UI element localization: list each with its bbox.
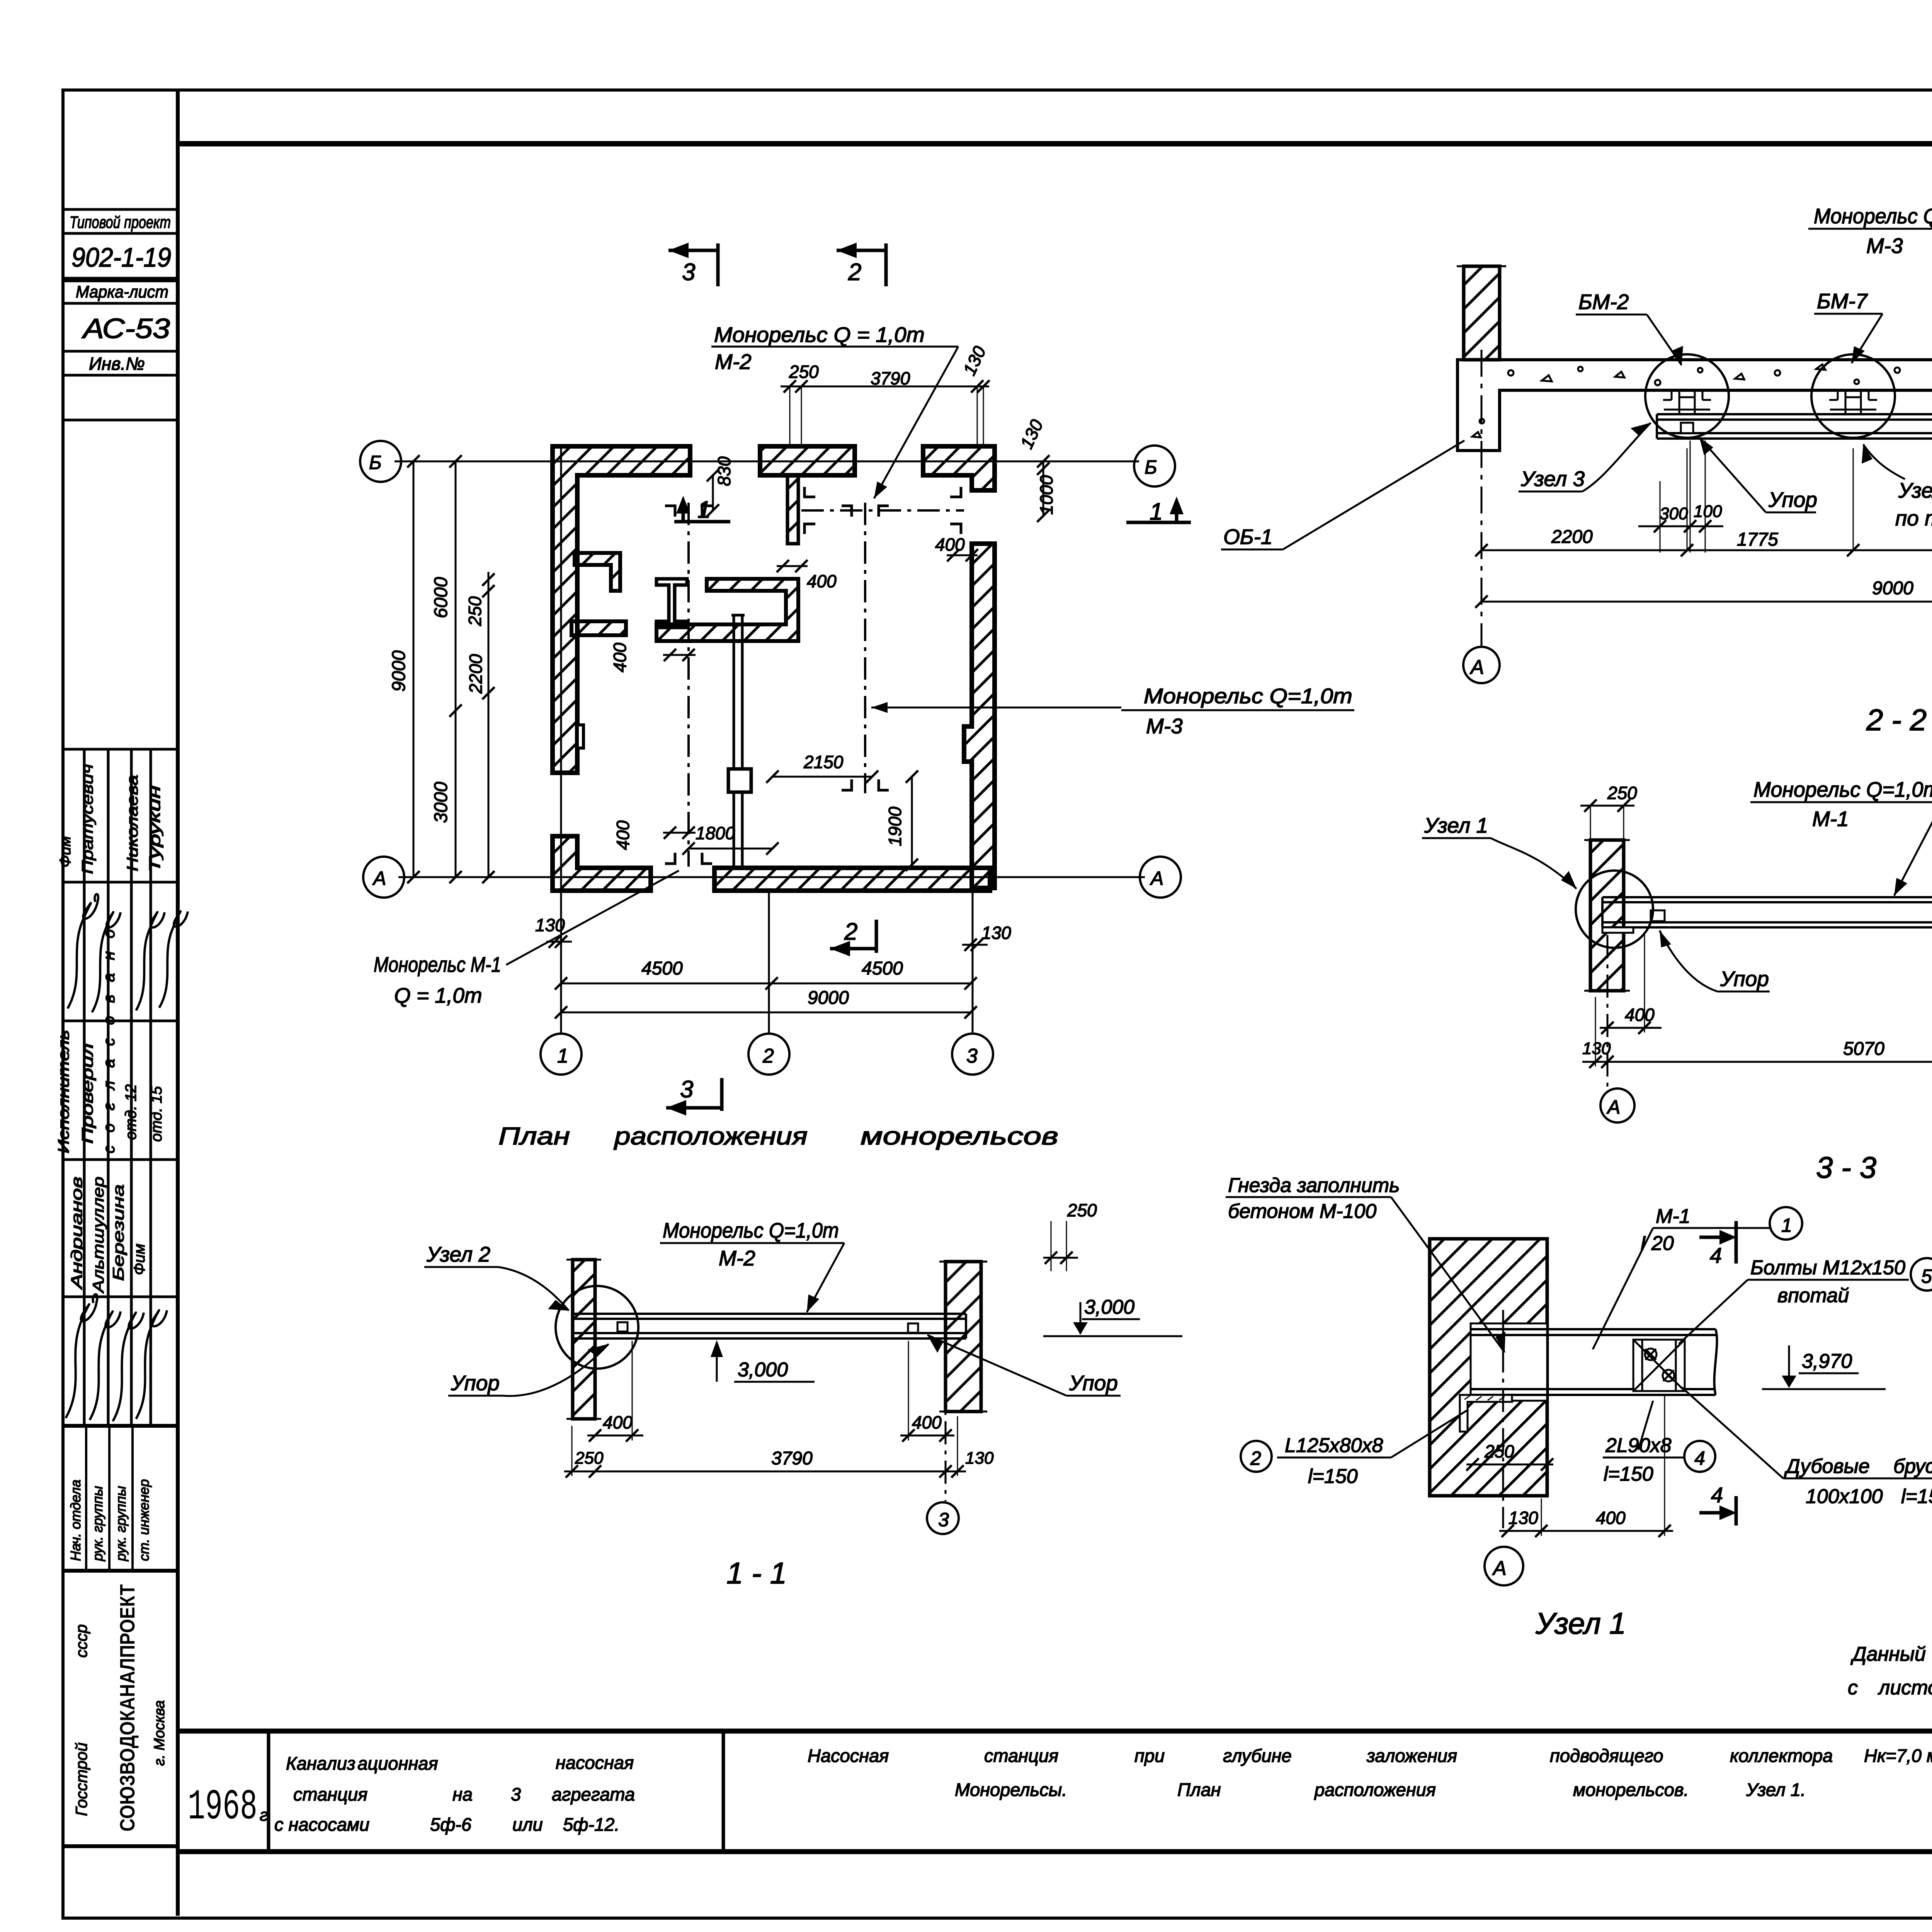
svg-text:5ф-12.: 5ф-12. <box>563 1814 619 1835</box>
section mark 1 right <box>1126 501 1191 522</box>
svg-text:1968: 1968 <box>188 1783 257 1832</box>
svg-text:l=150: l=150 <box>1308 1465 1358 1488</box>
svg-text:Монорельс Q=1,0т: Монорельс Q=1,0т <box>1814 204 1932 228</box>
svg-text:2150: 2150 <box>803 752 844 772</box>
svg-text:100: 100 <box>1694 502 1722 521</box>
wall: right <box>964 544 995 888</box>
left strip right edge <box>176 92 180 1916</box>
svg-text:130: 130 <box>1509 1508 1538 1528</box>
svg-text:Узел 3: Узел 3 <box>1520 467 1585 491</box>
svg-text:3000: 3000 <box>431 782 451 823</box>
bottom dims 250 3790 130 <box>564 1471 966 1473</box>
svg-text:1 - 1: 1 - 1 <box>726 1556 787 1590</box>
svg-text:с насосами: с насосами <box>274 1814 369 1835</box>
M-3 label leader <box>871 707 1121 709</box>
svg-text:l=150: l=150 <box>1901 1485 1932 1508</box>
svg-text:отд. 15: отд. 15 <box>148 1086 165 1142</box>
svg-text:250: 250 <box>465 596 485 626</box>
axis to circle А <box>1607 935 1609 1088</box>
svg-text:г: г <box>260 1806 268 1825</box>
signatures row2 (squiggles) <box>68 894 188 1012</box>
svg-text:А: А <box>1606 1096 1620 1118</box>
grid circle А left <box>363 857 404 898</box>
svg-text:1: 1 <box>1150 498 1163 525</box>
svg-text:1900: 1900 <box>885 806 905 846</box>
svg-text:4500: 4500 <box>862 958 903 979</box>
svg-text:830: 830 <box>714 456 734 486</box>
grid circle 3 <box>952 1034 993 1075</box>
svg-text:400: 400 <box>613 820 633 850</box>
detail circle БМ-7 <box>1811 354 1895 438</box>
left strip top boxes <box>63 209 178 420</box>
svg-text:рук. группы: рук. группы <box>113 1486 129 1561</box>
svg-text:расположения: расположения <box>614 1122 808 1150</box>
dim 130/1000 top right <box>1043 461 1044 516</box>
dim 400 left 1-1 <box>587 1435 643 1437</box>
svg-text:2L90х8: 2L90х8 <box>1605 1434 1672 1457</box>
dim 250 top 3-3 <box>1580 805 1634 807</box>
svg-text:станция: станция <box>984 1745 1058 1766</box>
svg-text:БМ-2: БМ-2 <box>1578 290 1629 314</box>
svg-text:9000: 9000 <box>808 988 849 1008</box>
svg-text:бетоном М-100: бетоном М-100 <box>1228 1200 1376 1223</box>
dim 830 <box>712 475 714 510</box>
svg-text:400: 400 <box>1625 1005 1655 1025</box>
svg-text:3: 3 <box>682 259 695 286</box>
svg-text:400: 400 <box>610 643 630 672</box>
wall: bottom <box>714 868 990 891</box>
M-1 leader <box>506 871 679 965</box>
svg-text:Дубовые: Дубовые <box>1784 1455 1870 1478</box>
svg-text:3: 3 <box>680 1076 693 1103</box>
svg-text:коллектора: коллектора <box>1730 1745 1833 1766</box>
svg-text:2200: 2200 <box>466 654 486 694</box>
svg-text:листом: листом <box>1878 1677 1932 1699</box>
svg-text:План: План <box>1177 1779 1221 1800</box>
wall: top-left band + left wall <box>553 446 690 773</box>
closet wall bottom <box>571 621 626 635</box>
Госстрой box <box>63 1844 178 1848</box>
svg-text:Данный: Данный <box>1850 1643 1926 1665</box>
svg-text:1: 1 <box>1781 1214 1792 1236</box>
dim 6000/3000 left <box>455 461 457 877</box>
svg-text:3790: 3790 <box>771 1448 813 1469</box>
grid circle А right <box>1140 857 1181 898</box>
section mark 1 in plan <box>674 500 730 522</box>
svg-text:Упор: Упор <box>1069 1371 1118 1395</box>
signature table grid <box>63 749 178 1426</box>
svg-text:902-1-19: 902-1-19 <box>71 242 171 272</box>
svg-text:станция: станция <box>293 1784 367 1804</box>
svg-text:Монорельс Q = 1,0т: Монорельс Q = 1,0т <box>714 323 925 347</box>
section mark 4 top <box>1699 1221 1736 1264</box>
svg-text:3,000: 3,000 <box>738 1359 788 1381</box>
svg-text:l=150: l=150 <box>1604 1463 1653 1485</box>
svg-text:250: 250 <box>1067 1200 1097 1220</box>
detail circle 1-1 <box>556 1286 638 1369</box>
closet wall top <box>575 553 620 591</box>
svg-text:Монорельс М-1: Монорельс М-1 <box>374 952 501 976</box>
svg-text:М-1: М-1 <box>1812 807 1849 831</box>
dim 400 right wall <box>947 554 978 556</box>
svg-text:3: 3 <box>511 1784 521 1804</box>
svg-text:А: А <box>1492 1557 1507 1580</box>
svg-text:Турукин: Турукин <box>146 786 163 872</box>
svg-text:4500: 4500 <box>641 958 683 979</box>
svg-text:Упор: Упор <box>1768 488 1817 512</box>
section mark 3 top <box>668 243 718 286</box>
monorail beam 2-2 <box>1657 414 1932 439</box>
dim 9000 <box>1481 601 1932 603</box>
monorail M-3 axis <box>864 503 866 793</box>
stopper left 1-1 <box>617 1322 628 1332</box>
dim 400 left bottom <box>663 832 696 834</box>
svg-text:при: при <box>1134 1745 1165 1766</box>
wall: top right <box>923 446 995 490</box>
svg-text:г. Москва: г. Москва <box>151 1700 168 1766</box>
svg-text:впотай: впотай <box>1777 1284 1849 1307</box>
svg-text:Упор: Упор <box>451 1371 500 1395</box>
svg-text:Монорельс Q=1,0т: Монорельс Q=1,0т <box>663 1218 839 1242</box>
svg-text:План: План <box>498 1122 570 1150</box>
svg-text:Насосная: Насосная <box>808 1745 889 1766</box>
grid line 1 <box>560 448 562 1032</box>
svg-text:2 - 2: 2 - 2 <box>1866 703 1927 737</box>
svg-text:Березина: Березина <box>110 1184 127 1281</box>
svg-text:подводящего: подводящего <box>1550 1745 1663 1766</box>
svg-text:3: 3 <box>966 1045 978 1067</box>
svg-text:400: 400 <box>935 534 965 554</box>
svg-text:М-2: М-2 <box>719 1246 755 1270</box>
angle L125x80x8 <box>1460 1395 1512 1432</box>
svg-text:Нк=7,0 м: Нк=7,0 м <box>1864 1745 1932 1766</box>
grid line А <box>398 876 1145 878</box>
small dims 300 100 <box>1638 526 1723 527</box>
svg-text:М-2: М-2 <box>715 350 752 374</box>
svg-text:монорельсов: монорельсов <box>861 1122 1058 1150</box>
thin partition <box>731 615 745 868</box>
slab with piers <box>1458 360 1932 451</box>
svg-text:Q = 1,0т: Q = 1,0т <box>394 983 482 1007</box>
wall left 3-3 <box>1590 840 1624 991</box>
svg-text:монорельсов.: монорельсов. <box>1573 1779 1689 1800</box>
grid circle 2 <box>748 1034 789 1075</box>
dim 400 mid top <box>777 565 808 567</box>
svg-text:3,970: 3,970 <box>1802 1350 1852 1372</box>
svg-text:2: 2 <box>848 259 861 286</box>
dim 400 left 3-3 <box>1600 1027 1662 1029</box>
svg-text:агрегата: агрегата <box>552 1784 635 1804</box>
grid line 3 <box>972 891 974 1032</box>
bracket БМ-2 <box>1663 391 1711 414</box>
grid line 2 <box>768 891 770 1032</box>
section mark 3 bottom <box>666 1078 722 1111</box>
beam stopper left <box>1681 423 1693 433</box>
dim 400 right 1-1 <box>900 1435 954 1437</box>
svg-text:Болты М12х150: Болты М12х150 <box>1750 1257 1905 1279</box>
svg-text:3 - 3: 3 - 3 <box>1816 1150 1876 1184</box>
label L125x80x8 <box>1241 1441 1272 1472</box>
circle А <box>1463 647 1500 683</box>
svg-text:130: 130 <box>535 915 565 935</box>
inner thick border top <box>178 141 1932 146</box>
svg-text:Узел 1: Узел 1 <box>1424 813 1488 837</box>
svg-text:АС-53: АС-53 <box>82 313 170 344</box>
svg-text:Исполнитель: Исполнитель <box>55 1030 72 1153</box>
svg-text:Инв.№: Инв.№ <box>89 354 145 374</box>
svg-text:Узел 1.: Узел 1. <box>1746 1779 1806 1800</box>
svg-text:ст. инженер: ст. инженер <box>136 1479 152 1561</box>
dim 130 400 узел1 <box>1499 1530 1673 1532</box>
wall right 1-1 <box>946 1262 981 1412</box>
svg-text:1775: 1775 <box>1737 529 1778 550</box>
svg-text:250: 250 <box>1484 1441 1514 1461</box>
svg-text:А: А <box>1469 656 1484 679</box>
bolt assembly with oak blocks <box>1633 1340 1685 1391</box>
dim 9000 left <box>413 461 415 877</box>
svg-text:300: 300 <box>1660 504 1688 523</box>
svg-text:Фим: Фим <box>57 836 74 867</box>
wall: bottom-left corner <box>553 836 651 891</box>
svg-text:Пратусевич: Пратусевич <box>79 764 96 874</box>
NOTES <box>1848 1600 1932 1699</box>
svg-text:4: 4 <box>1694 1447 1705 1469</box>
svg-text:Б: Б <box>369 452 382 473</box>
beam 1-1 <box>573 1314 966 1338</box>
svg-text:250: 250 <box>1607 783 1637 803</box>
svg-text:отд. 12: отд. 12 <box>122 1084 139 1140</box>
roles row <box>55 1030 165 1153</box>
bottom signatures (squiggles) <box>66 1294 167 1421</box>
wall: top middle <box>760 446 855 475</box>
svg-text:6000: 6000 <box>431 577 451 618</box>
dim 250/2200 left <box>488 572 490 877</box>
svg-text:Фим: Фим <box>131 1244 148 1275</box>
svg-text:3,000: 3,000 <box>1084 1296 1134 1318</box>
svg-text:400: 400 <box>807 571 837 591</box>
svg-text:Монорельс Q=1,0т: Монорельс Q=1,0т <box>1753 777 1932 801</box>
monorail M-1 axis <box>687 503 690 867</box>
sheet name cell <box>808 1745 1932 1800</box>
svg-text:БМ-7: БМ-7 <box>1817 289 1868 313</box>
svg-text:130: 130 <box>981 923 1011 943</box>
stopper right 1-1 <box>908 1323 918 1333</box>
svg-text:2: 2 <box>844 918 857 945</box>
PLAN <box>360 243 1354 1150</box>
svg-text:250: 250 <box>575 1449 604 1468</box>
svg-text:400: 400 <box>912 1412 942 1432</box>
SEC22 <box>1221 204 1932 737</box>
svg-text:3: 3 <box>938 1509 949 1531</box>
axis grid 3 <box>945 1264 947 1501</box>
dim 2150 <box>772 776 872 778</box>
svg-text:Андрианов: Андрианов <box>68 1177 85 1290</box>
svg-text:Узел 1: Узел 1 <box>1535 1606 1626 1640</box>
svg-text:рук. группы: рук. группы <box>90 1486 105 1561</box>
svg-text:2: 2 <box>1250 1447 1261 1469</box>
names row <box>68 1177 148 1293</box>
svg-text:4: 4 <box>1710 1243 1722 1267</box>
svg-text:2200: 2200 <box>1551 527 1593 547</box>
dim 4500+4500 <box>561 983 971 985</box>
dim 9000 bottom <box>561 1012 971 1014</box>
svg-text:5070: 5070 <box>1843 1039 1884 1059</box>
circle А узел1 <box>1485 1547 1523 1585</box>
svg-text:Гнезда заполнить: Гнезда заполнить <box>1228 1174 1400 1197</box>
svg-text:СОЮЗВОДОКАНАЛПРОЕКТ: СОЮЗВОДОКАНАЛПРОЕКТ <box>116 1584 139 1832</box>
svg-text:расположения: расположения <box>1314 1779 1436 1800</box>
support angle left <box>1602 927 1633 933</box>
svg-text:с: с <box>1848 1677 1858 1699</box>
bracket БМ-7 <box>1829 391 1877 414</box>
svg-text:Нач. отдела: Нач. отдела <box>68 1480 83 1561</box>
SEC11 <box>424 1200 1182 1590</box>
svg-text:Николаева: Николаева <box>124 775 141 871</box>
svg-text:9000: 9000 <box>1872 578 1913 599</box>
dim 1900 <box>911 777 913 865</box>
wall above slab left <box>1464 266 1500 360</box>
svg-text:М-3: М-3 <box>1866 234 1903 258</box>
middle U walls <box>656 579 798 641</box>
dim 1800 <box>689 848 772 850</box>
svg-text:глубине: глубине <box>1223 1745 1292 1766</box>
wall pilaster left <box>577 725 583 748</box>
svg-text:5: 5 <box>1921 1265 1932 1287</box>
partition pilaster <box>728 769 751 792</box>
rotated names row1 <box>57 764 163 874</box>
monorail M-2 axis <box>801 509 964 512</box>
axis А dashline <box>1481 350 1483 646</box>
dim 250 узел1 <box>1466 1464 1553 1466</box>
UZEL1 <box>1226 1174 1932 1640</box>
dim 400 left mid <box>663 654 696 656</box>
top dim 250/3790/130 <box>781 386 989 388</box>
svg-text:Марка-лист: Марка-лист <box>76 282 168 301</box>
wall block <box>1430 1239 1547 1496</box>
svg-text:Упор: Упор <box>1720 967 1769 991</box>
main dims 2200 1775 3195 1830 <box>1481 549 1932 551</box>
beam узел1 <box>1471 1329 1717 1395</box>
svg-text:насосная: насосная <box>556 1752 634 1773</box>
section mark 2 bottom <box>830 920 876 953</box>
dim 130 bottom right <box>962 944 988 946</box>
svg-text:Монорельсы.: Монорельсы. <box>955 1779 1067 1800</box>
svg-text:400: 400 <box>1596 1508 1626 1528</box>
wall left 1-1 <box>573 1260 595 1419</box>
svg-text:Канализационная: Канализационная <box>286 1753 438 1774</box>
svg-text:бруски: бруски <box>1893 1455 1932 1478</box>
main dim 130 5070 250 <box>1582 1061 1932 1063</box>
TITLE BLOCK <box>178 1731 1932 1852</box>
svg-text:ссср: ссср <box>72 1624 90 1658</box>
svg-text:4: 4 <box>1711 1483 1723 1507</box>
svg-text:Типовой проект: Типовой проект <box>70 213 171 232</box>
svg-text:ОБ-1: ОБ-1 <box>1223 525 1272 549</box>
svg-text:М-3: М-3 <box>1146 714 1183 738</box>
project name cell <box>274 1752 635 1835</box>
svg-text:Узел 2: Узел 2 <box>426 1242 490 1266</box>
svg-text:1: 1 <box>557 1045 568 1067</box>
M-2 leader <box>874 347 958 498</box>
svg-text:1800: 1800 <box>696 823 735 843</box>
grid circle Б left <box>360 441 401 482</box>
detail circle left <box>1576 871 1653 948</box>
wall stub below top middle <box>787 475 798 544</box>
beam 3-3 <box>1602 897 1932 927</box>
svg-text:Альтшуллер: Альтшуллер <box>90 1177 107 1293</box>
svg-text:9000: 9000 <box>389 650 409 692</box>
dim 130 bottom left <box>546 941 572 943</box>
svg-text:250: 250 <box>789 362 819 382</box>
svg-text:или: или <box>512 1814 543 1835</box>
socket opening <box>1471 1323 1547 1401</box>
svg-text:3790: 3790 <box>871 368 910 388</box>
detail circle БМ-2 <box>1645 354 1729 438</box>
stopper left 3-3 <box>1651 910 1665 921</box>
concrete speckles <box>1472 364 1932 437</box>
svg-text:130: 130 <box>965 1449 994 1468</box>
svg-text:5ф-6: 5ф-6 <box>430 1814 472 1835</box>
grid circle 1 <box>541 1034 582 1075</box>
svg-text:L125х80х8: L125х80х8 <box>1285 1434 1383 1457</box>
svg-text:Госстрой: Госстрой <box>72 1743 90 1816</box>
svg-text:Монорельс Q=1,0т: Монорельс Q=1,0т <box>1144 684 1352 708</box>
svg-text:1000: 1000 <box>1036 475 1056 515</box>
svg-text:Узел 3: Узел 3 <box>1898 478 1932 502</box>
section mark 2 top <box>837 243 886 286</box>
SEC33 <box>1422 777 1932 1184</box>
axis dashline <box>1502 1310 1504 1528</box>
svg-text:М-1: М-1 <box>1656 1205 1690 1228</box>
I-column <box>656 579 687 628</box>
svg-text:1: 1 <box>697 497 711 523</box>
svg-text:2: 2 <box>762 1045 774 1067</box>
svg-text:А: А <box>372 867 386 889</box>
svg-text:заложения: заложения <box>1366 1745 1457 1766</box>
svg-text:Б: Б <box>1145 456 1157 478</box>
svg-text:по типу: по типу <box>1895 506 1932 530</box>
svg-text:Проверил: Проверил <box>79 1043 96 1144</box>
svg-text:А: А <box>1150 867 1163 889</box>
svg-text:на: на <box>452 1784 473 1804</box>
grid line Б <box>395 461 1139 463</box>
dept roles block <box>86 1426 133 1571</box>
grid circle Б right <box>1134 446 1175 486</box>
svg-text:400: 400 <box>603 1412 633 1432</box>
svg-text:100х100: 100х100 <box>1806 1485 1883 1508</box>
